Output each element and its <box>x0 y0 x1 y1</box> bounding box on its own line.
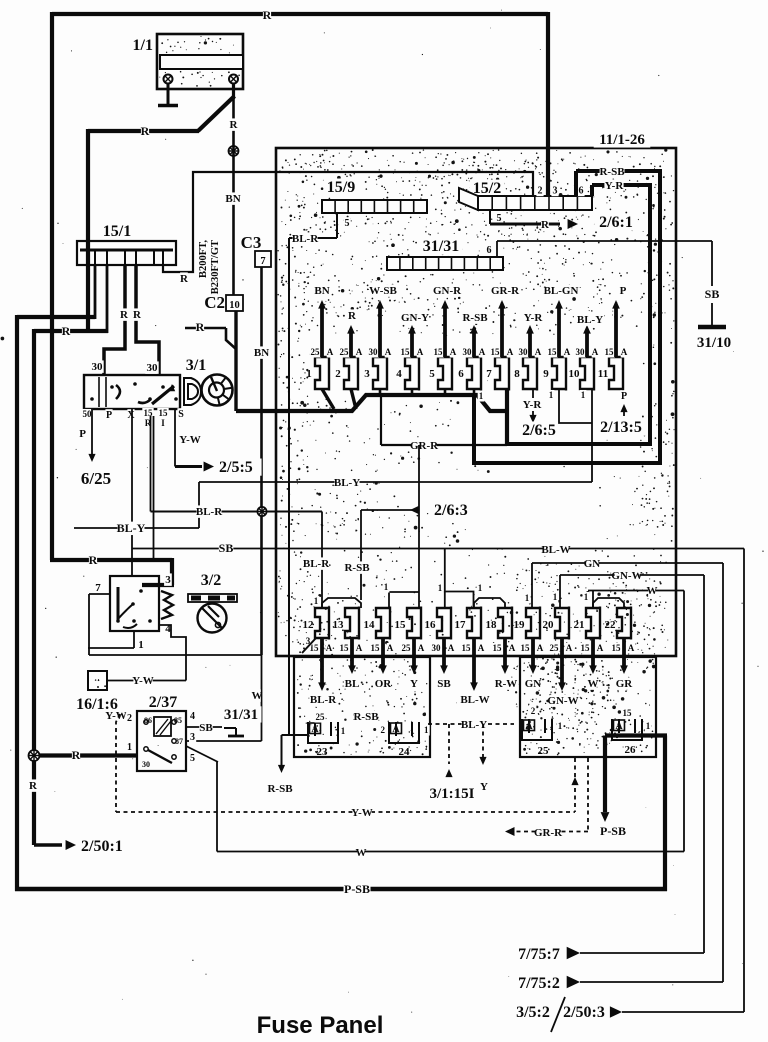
svg-text:15: 15 <box>612 643 622 653</box>
svg-text:S: S <box>178 409 184 420</box>
svg-text:A: A <box>327 347 334 357</box>
wire GN <box>524 557 723 608</box>
label Y-W relay <box>105 709 127 722</box>
svg-text:R: R <box>141 124 150 138</box>
svg-text:2/6:5: 2/6:5 <box>522 422 556 439</box>
wire R-SB loop <box>474 165 662 465</box>
labels 15/2 pins <box>495 185 584 224</box>
svg-text:15: 15 <box>401 347 411 357</box>
svg-text:1: 1 <box>478 583 483 593</box>
wire BN battery-C2 <box>225 99 240 295</box>
svg-text:B230FT/GT: B230FT/GT <box>210 240 221 294</box>
svg-text:GN-R: GN-R <box>433 285 462 297</box>
svg-text:11/1-26: 11/1-26 <box>599 132 645 148</box>
svg-text:P-SB: P-SB <box>344 882 370 896</box>
svg-text:OR: OR <box>375 678 393 690</box>
svg-text:P-SB: P-SB <box>600 824 626 838</box>
wire W to relay branch <box>186 655 263 741</box>
svg-text:R-W: R-W <box>495 678 518 690</box>
svg-text:24: 24 <box>399 746 411 758</box>
wire P-SB from fuse 26 <box>600 736 668 892</box>
svg-text:A: A <box>592 347 599 357</box>
svg-text:15: 15 <box>462 643 472 653</box>
svg-text:Y-W: Y-W <box>351 807 373 819</box>
svg-text:A: A <box>525 721 533 732</box>
svg-text:30: 30 <box>463 347 473 357</box>
svg-text:P: P <box>106 410 112 421</box>
fuse 17 <box>455 607 490 707</box>
wire W long to relay <box>186 591 684 860</box>
svg-text:1: 1 <box>558 721 563 731</box>
svg-text:3/2: 3/2 <box>201 572 221 589</box>
svg-text:30: 30 <box>519 347 529 357</box>
fuse 17-18 top link <box>474 598 505 608</box>
light switch <box>110 576 159 631</box>
svg-text:15/9: 15/9 <box>327 179 355 196</box>
fuse 21 <box>574 607 604 691</box>
svg-text:A: A <box>387 643 394 653</box>
svg-text:15: 15 <box>491 347 501 357</box>
fuse 8 <box>514 325 542 391</box>
svg-text:26: 26 <box>625 744 637 756</box>
svg-text:W: W <box>647 585 658 597</box>
svg-text:BL-W: BL-W <box>460 694 489 706</box>
fuse 20 <box>543 607 579 708</box>
svg-text:3: 3 <box>364 368 370 380</box>
svg-text:1: 1 <box>584 592 589 602</box>
fuse 2 bottom diagonal <box>351 389 356 409</box>
svg-text:22: 22 <box>605 619 617 631</box>
wire light switch pin 1 <box>88 631 134 648</box>
fuse 19 <box>514 607 544 691</box>
svg-text:3/1: 3/1 <box>186 357 206 374</box>
svg-text:50: 50 <box>83 409 93 419</box>
svg-text:R: R <box>29 780 38 792</box>
wire BN C3 down <box>254 267 269 655</box>
svg-text:16: 16 <box>425 619 437 631</box>
svg-text:BN: BN <box>314 285 329 297</box>
svg-text:W: W <box>588 678 599 690</box>
wire 2/6:3 <box>344 502 476 600</box>
svg-text:85: 85 <box>174 716 182 725</box>
svg-text:R: R <box>62 324 71 338</box>
svg-text:6/25: 6/25 <box>81 469 111 488</box>
svg-text:A: A <box>392 724 400 735</box>
svg-text:8: 8 <box>514 368 520 380</box>
labels ignition pins <box>81 408 184 429</box>
wire R top <box>52 8 548 22</box>
svg-text:A: A <box>450 347 457 357</box>
fuse 10 <box>569 325 599 391</box>
wire to 7/75:7 <box>513 575 704 963</box>
svg-text:2: 2 <box>538 186 543 197</box>
fuse 22 <box>605 607 635 691</box>
battery terminal left <box>164 75 173 105</box>
svg-text:A: A <box>537 643 544 653</box>
svg-text:1: 1 <box>581 390 586 400</box>
wire fuse 6 pin label <box>478 391 485 402</box>
svg-text:SB: SB <box>705 287 720 301</box>
wire Y-R to 2/6:5 <box>517 389 561 439</box>
svg-text:4: 4 <box>396 368 402 380</box>
svg-text:25: 25 <box>316 712 326 722</box>
svg-text:5: 5 <box>429 368 435 380</box>
fuse 16 <box>425 607 455 691</box>
wire BL-Y from fuses 9,10 <box>548 389 592 482</box>
svg-text:C3: C3 <box>241 233 262 252</box>
wire C2 to bus <box>234 311 237 411</box>
svg-text:R-SB: R-SB <box>462 312 488 324</box>
wire Y-W to 2/5:5 <box>175 409 262 476</box>
connector C3 <box>241 233 271 267</box>
wire SB BL-W <box>132 541 744 608</box>
fuse 23 <box>308 710 379 758</box>
svg-text:15: 15 <box>581 643 591 653</box>
svg-text:A: A <box>479 347 486 357</box>
svg-text:R: R <box>120 309 129 321</box>
splice on R relay wire <box>29 750 40 792</box>
svg-text:R: R <box>133 309 142 321</box>
svg-text:A: A <box>478 643 485 653</box>
svg-text:15: 15 <box>159 408 169 418</box>
svg-text:R-SB: R-SB <box>344 562 370 574</box>
svg-text:13: 13 <box>333 619 345 631</box>
svg-text:7: 7 <box>260 256 265 267</box>
svg-text:A: A <box>356 643 363 653</box>
svg-text:2/5:5: 2/5:5 <box>219 459 253 476</box>
svg-text:3/5:2: 3/5:2 <box>516 1004 550 1021</box>
wire R jog y331 <box>34 324 108 338</box>
svg-text:15: 15 <box>548 347 558 357</box>
relay 2/37 <box>137 694 186 771</box>
svg-text:2/6:3: 2/6:3 <box>434 502 468 519</box>
svg-text:1: 1 <box>127 742 132 753</box>
svg-text:15: 15 <box>395 619 407 631</box>
wire P to 6/25 <box>77 409 114 488</box>
wire into fuse 23 <box>282 734 309 736</box>
dashed wire GR-R <box>505 758 588 839</box>
key symbol <box>184 378 201 405</box>
wire R battery <box>88 83 235 138</box>
wire BL-R down to fuse 12 <box>303 512 330 609</box>
svg-text:1: 1 <box>314 596 319 606</box>
svg-text:R: R <box>348 310 357 322</box>
svg-text:P: P <box>620 285 627 297</box>
wire to 3/5:2 2/50:3 <box>511 549 744 1033</box>
wire ignition 15R 15I down <box>151 416 154 560</box>
svg-text:15: 15 <box>340 643 350 653</box>
svg-text:A: A <box>385 347 392 357</box>
svg-text:30: 30 <box>369 347 379 357</box>
fuse box 23-24 <box>294 657 430 757</box>
fuse 11 <box>598 300 628 391</box>
svg-text:A: A <box>615 721 623 732</box>
wire BL-Y horizontal <box>74 476 592 535</box>
svg-text:Y-R: Y-R <box>605 180 625 192</box>
svg-text:A: A <box>326 643 333 653</box>
wire GR-R <box>381 395 507 608</box>
svg-text:GR-R: GR-R <box>410 440 439 452</box>
wire 15/1 pin2 down <box>106 265 109 333</box>
svg-text:30: 30 <box>576 347 586 357</box>
svg-text:3: 3 <box>190 732 195 743</box>
svg-text:7: 7 <box>95 582 101 594</box>
fuse 1 bottom diagonal <box>322 389 334 409</box>
svg-text:GN: GN <box>584 558 601 570</box>
svg-text:87: 87 <box>175 737 183 746</box>
svg-text:R: R <box>541 219 550 231</box>
svg-text:R: R <box>230 119 239 131</box>
svg-text:15: 15 <box>623 708 633 718</box>
svg-text:R: R <box>263 8 272 22</box>
connector splice on BN wire <box>229 146 239 156</box>
ignition switch face <box>202 375 233 406</box>
svg-text:BL-GN: BL-GN <box>544 285 579 297</box>
svg-text:15: 15 <box>371 643 381 653</box>
svg-text:Y-R: Y-R <box>523 399 543 411</box>
svg-text:R: R <box>196 320 205 334</box>
svg-text:1: 1 <box>384 582 389 592</box>
wire 15/1 pin1 down <box>94 265 97 319</box>
ground at battery <box>158 104 178 108</box>
fuse strip 31/31 <box>387 238 503 270</box>
wire R-SB output <box>267 735 293 795</box>
svg-text:10: 10 <box>569 368 581 380</box>
rheostat 3/2 <box>188 572 237 633</box>
wire 15/1 pin6 to 15/2 pin2 <box>163 172 533 285</box>
wire light switch pin 4 Y-W <box>159 625 186 681</box>
svg-text:BL-W: BL-W <box>541 544 570 556</box>
svg-text:30: 30 <box>147 362 159 374</box>
fuse 7 <box>486 300 514 391</box>
wire P-SB bottom <box>15 882 667 896</box>
wire battery R down-left <box>86 129 90 331</box>
svg-text:12: 12 <box>303 619 315 631</box>
svg-text:30: 30 <box>92 361 104 373</box>
svg-text:30: 30 <box>432 643 442 653</box>
fuse strip 15/9 <box>322 179 427 213</box>
wire ignition X down <box>131 409 133 576</box>
svg-text:2: 2 <box>531 706 536 716</box>
wire W <box>583 584 684 608</box>
svg-text:P: P <box>79 428 86 440</box>
svg-text:6: 6 <box>579 186 584 197</box>
svg-text:2: 2 <box>127 713 132 724</box>
svg-text:GR: GR <box>616 678 634 690</box>
fuse row1 output labels <box>314 284 626 326</box>
svg-text:A: A <box>628 643 635 653</box>
svg-text:3: 3 <box>553 186 558 197</box>
wire 15/1 pin4 to ignition 30 <box>133 265 159 375</box>
svg-text:2/13:5: 2/13:5 <box>600 419 642 436</box>
svg-text:7/75:7: 7/75:7 <box>518 946 560 963</box>
connector 15/1 <box>77 223 176 265</box>
fuse 18 <box>486 607 518 691</box>
wire 2/50:1 <box>34 838 132 855</box>
svg-text:GN-W: GN-W <box>611 570 642 582</box>
svg-text:R: R <box>72 748 81 762</box>
svg-text:18: 18 <box>486 619 498 631</box>
svg-text:1: 1 <box>549 390 554 400</box>
fuse 4 <box>396 325 424 391</box>
svg-text:3/1:15I: 3/1:15I <box>430 786 475 802</box>
svg-text:11: 11 <box>598 368 608 380</box>
svg-text:R: R <box>89 553 98 567</box>
fuse 5 <box>429 300 457 391</box>
svg-text:W: W <box>252 690 263 702</box>
wire 15/1 pin3 to ignition 30 <box>104 265 129 375</box>
svg-text:7: 7 <box>486 368 492 380</box>
svg-text:SB: SB <box>437 678 451 690</box>
svg-text:10: 10 <box>229 300 240 311</box>
svg-text:A: A <box>564 347 571 357</box>
wire BL-R down to fuse 23 <box>288 238 290 735</box>
svg-text:1/1: 1/1 <box>133 37 153 54</box>
svg-text:BL-Y: BL-Y <box>117 521 146 535</box>
fuse 12 pin labels <box>302 596 319 653</box>
svg-text:A: A <box>356 347 363 357</box>
svg-text:15/1: 15/1 <box>103 223 131 240</box>
svg-text:9: 9 <box>543 368 549 380</box>
fuse 12 <box>303 607 338 707</box>
svg-text:A: A <box>535 347 542 357</box>
wire 31/31 pin6 to ground 31/10 <box>485 241 734 351</box>
svg-text:1: 1 <box>479 391 484 401</box>
svg-text:R-SB: R-SB <box>267 783 293 795</box>
svg-text:R-SB: R-SB <box>353 711 379 723</box>
svg-text:6: 6 <box>487 245 492 256</box>
svg-text:7/75:2: 7/75:2 <box>518 975 560 992</box>
relay pin labels <box>126 710 196 769</box>
svg-text:17: 17 <box>455 619 467 631</box>
svg-text:2: 2 <box>381 725 386 735</box>
svg-text:A: A <box>311 724 319 735</box>
fuse 1 <box>306 300 334 391</box>
svg-text:15: 15 <box>144 408 154 418</box>
light switch pin labels <box>94 573 172 651</box>
fuse stubs to bus <box>380 389 474 396</box>
svg-text:GR-R: GR-R <box>491 285 520 297</box>
svg-text:86: 86 <box>144 716 152 725</box>
fuse 25 <box>522 706 563 757</box>
svg-text:25: 25 <box>311 347 321 357</box>
svg-text:I: I <box>161 418 165 428</box>
wire ignition bus to fuses <box>236 390 507 446</box>
svg-text:1: 1 <box>138 639 144 651</box>
svg-text:GR-R: GR-R <box>534 827 563 839</box>
svg-text:25: 25 <box>550 643 560 653</box>
svg-text:30: 30 <box>142 760 150 769</box>
svg-text:Y-W: Y-W <box>105 710 127 722</box>
battery 1/1 <box>157 34 243 89</box>
svg-text:1: 1 <box>646 721 651 731</box>
ground point 16/1:6 <box>71 671 123 713</box>
svg-text:15: 15 <box>493 643 503 653</box>
svg-text:BN: BN <box>225 193 240 205</box>
wire light switch pin 7 <box>89 594 262 655</box>
splice on BL-R <box>257 507 266 516</box>
svg-text:A: A <box>448 643 455 653</box>
svg-text:3: 3 <box>165 574 171 586</box>
label 11/1-26 <box>594 131 651 148</box>
fuse 3 <box>364 300 392 391</box>
svg-text:W: W <box>356 847 367 859</box>
svg-text:BL-Y: BL-Y <box>577 314 603 326</box>
svg-text:BL-R: BL-R <box>303 558 330 570</box>
svg-text:2: 2 <box>335 368 341 380</box>
svg-text:BL-R: BL-R <box>310 694 337 706</box>
svg-text:25: 25 <box>538 745 550 757</box>
svg-text:31/10: 31/10 <box>697 335 731 351</box>
node P 2/13:5 <box>595 390 647 436</box>
fuse 2 <box>335 325 363 391</box>
fuse 14 <box>364 607 394 691</box>
ignition switch 3/1 <box>84 357 210 409</box>
svg-text:25: 25 <box>340 347 350 357</box>
svg-text:GN-W: GN-W <box>547 695 578 707</box>
svg-text:R-SB: R-SB <box>599 166 625 178</box>
svg-text:4: 4 <box>190 711 195 722</box>
svg-text:BL: BL <box>345 678 360 690</box>
wire x34 down <box>32 329 36 845</box>
wire R to light switch <box>50 553 174 585</box>
svg-text:BL-Y: BL-Y <box>334 477 360 489</box>
light switch wave symbol <box>161 591 173 619</box>
wire Y-W to 16/1:6 <box>107 674 186 687</box>
svg-text:SB: SB <box>219 541 234 555</box>
svg-text:Fuse Panel: Fuse Panel <box>257 1012 384 1039</box>
svg-text:23: 23 <box>317 746 329 758</box>
svg-text:1: 1 <box>341 726 346 736</box>
wire R to relay <box>34 748 137 762</box>
fuse 26 <box>612 708 651 756</box>
svg-text:BL-R: BL-R <box>292 233 319 245</box>
battery terminal right <box>229 75 238 84</box>
svg-text:A: A <box>418 643 425 653</box>
svg-text:14: 14 <box>364 619 376 631</box>
svg-text:Y-W: Y-W <box>179 434 201 446</box>
svg-text:P: P <box>621 391 627 402</box>
svg-text:20: 20 <box>543 619 555 631</box>
svg-text:15: 15 <box>521 643 531 653</box>
labels ignition 30 <box>90 360 158 374</box>
svg-text:A: A <box>621 347 628 357</box>
svg-text:5: 5 <box>497 213 502 224</box>
15/9 pin 5 wire BL-R <box>289 213 351 245</box>
svg-text:15: 15 <box>605 347 615 357</box>
svg-text:1: 1 <box>424 725 429 735</box>
fuse box 25-26 <box>520 657 656 757</box>
svg-text:1: 1 <box>306 368 312 380</box>
connector C2 <box>204 293 243 312</box>
fuse 9 <box>543 300 571 391</box>
dashed wire Y-W <box>116 714 579 819</box>
svg-text:15: 15 <box>434 347 444 357</box>
svg-text:A: A <box>597 643 604 653</box>
fuse 21-22 top link <box>593 598 624 608</box>
svg-text:W-SB: W-SB <box>369 285 397 297</box>
svg-text:1: 1 <box>438 583 443 593</box>
svg-text:BL-R: BL-R <box>196 506 223 518</box>
svg-text:SB: SB <box>199 722 213 734</box>
svg-text:2/50:3: 2/50:3 <box>563 1004 605 1021</box>
fuse 15 <box>395 607 425 691</box>
wire 15/1 pin jog y317 <box>17 315 95 319</box>
svg-text:C2: C2 <box>204 293 225 312</box>
svg-text:Y-W: Y-W <box>132 675 154 687</box>
wire to 15/2 pin 3 <box>546 12 550 196</box>
svg-text:15/2: 15/2 <box>473 180 501 197</box>
